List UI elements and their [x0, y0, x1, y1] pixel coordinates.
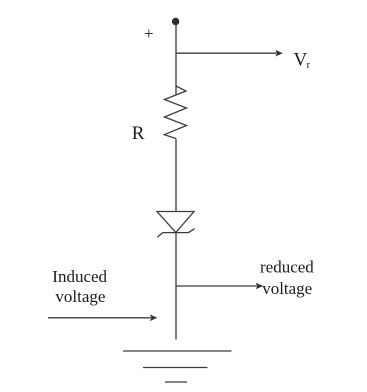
wire: top node down to resistor: [175, 24, 177, 96]
ground (bar 3): [165, 381, 187, 383]
node A (top junction dot): [172, 18, 179, 25]
svg-text:+: +: [144, 24, 154, 43]
zener diode D1 (cathode bar with bent ends): [157, 229, 194, 238]
svg-text:V: V: [294, 49, 308, 70]
ground (bar 2): [143, 367, 208, 369]
wire: resistor to zener: [175, 139, 177, 212]
arrowhead: Vr tap: [275, 50, 282, 57]
wire: induced-voltage input: [48, 317, 151, 319]
svg-text:Induced: Induced: [52, 267, 107, 286]
zener diode D1 (triangle): [157, 212, 194, 233]
ground (bar 1): [123, 350, 232, 352]
arrowhead: reduced-voltage tap: [256, 283, 263, 290]
wire: reduced-voltage tap: [176, 285, 257, 287]
svg-text:voltage: voltage: [262, 279, 312, 298]
svg-text:reduced: reduced: [260, 257, 314, 276]
wire: Vr tap: [176, 52, 277, 54]
svg-text:R: R: [132, 123, 145, 144]
wire: zener to ground: [175, 233, 177, 340]
resistor R: [164, 86, 186, 139]
arrowhead: induced-voltage input: [150, 315, 157, 322]
svg-text:voltage: voltage: [55, 287, 105, 306]
svg-text:r: r: [307, 60, 311, 71]
